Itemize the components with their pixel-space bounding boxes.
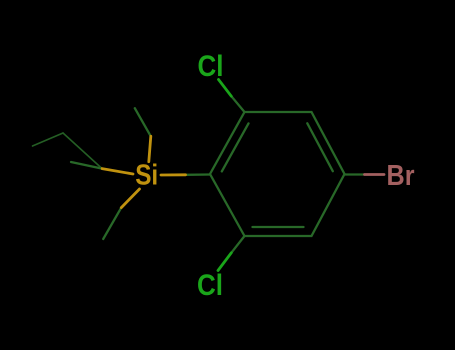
svg-text:Cl: Cl	[198, 50, 224, 83]
svg-text:Si: Si	[135, 160, 158, 192]
svg-text:Cl: Cl	[197, 269, 223, 302]
svg-text:Br: Br	[387, 160, 415, 192]
